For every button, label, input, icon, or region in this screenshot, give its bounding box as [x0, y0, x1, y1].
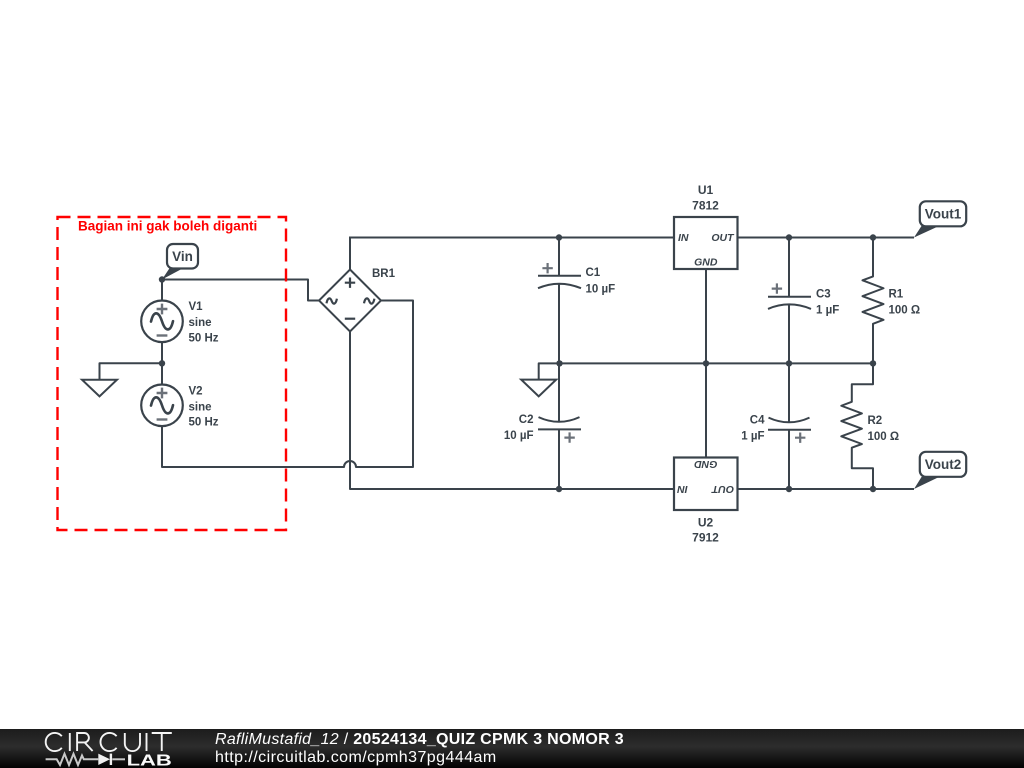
svg-text:U2: U2 [698, 516, 714, 530]
svg-text:OUT: OUT [711, 232, 735, 244]
svg-text:GND: GND [694, 257, 718, 269]
svg-text:http://circuitlab.com/cpmh37pg: http://circuitlab.com/cpmh37pg444am [215, 749, 497, 766]
svg-text:IN: IN [677, 483, 688, 495]
svg-text:OUT: OUT [710, 483, 734, 495]
svg-text:C4: C4 [750, 414, 765, 426]
svg-text:BR1: BR1 [372, 268, 396, 280]
svg-text:LAB: LAB [127, 752, 172, 768]
svg-text:Vout2: Vout2 [925, 457, 962, 472]
svg-text:C2: C2 [519, 414, 534, 426]
svg-text:C3: C3 [816, 289, 831, 301]
svg-text:R1: R1 [889, 289, 904, 301]
svg-text:50 Hz: 50 Hz [189, 333, 219, 345]
svg-text:C1: C1 [586, 267, 601, 279]
svg-text:10 µF: 10 µF [586, 284, 616, 296]
svg-text:100 Ω: 100 Ω [889, 305, 921, 317]
svg-text:sine: sine [189, 402, 212, 414]
svg-text:V2: V2 [189, 386, 203, 398]
svg-text:1 µF: 1 µF [741, 431, 764, 443]
svg-text:U1: U1 [698, 183, 714, 197]
svg-text:V1: V1 [189, 301, 204, 313]
svg-text:R2: R2 [868, 415, 883, 427]
svg-text:RafliMustafid_12 / 20524134_QU: RafliMustafid_12 / 20524134_QUIZ CPMK 3 … [215, 731, 624, 748]
svg-text:7812: 7812 [692, 199, 719, 213]
svg-text:100 Ω: 100 Ω [868, 431, 900, 443]
svg-text:10 µF: 10 µF [504, 430, 534, 442]
svg-text:50 Hz: 50 Hz [189, 417, 219, 429]
svg-text:sine: sine [189, 317, 212, 329]
svg-text:Vin: Vin [172, 249, 193, 264]
svg-text:IN: IN [678, 232, 689, 244]
svg-text:Vout1: Vout1 [925, 207, 962, 222]
svg-text:7912: 7912 [692, 531, 719, 545]
svg-text:1 µF: 1 µF [816, 305, 839, 317]
svg-text:Bagian ini gak boleh diganti: Bagian ini gak boleh diganti [78, 218, 257, 233]
svg-text:GND: GND [694, 458, 718, 470]
